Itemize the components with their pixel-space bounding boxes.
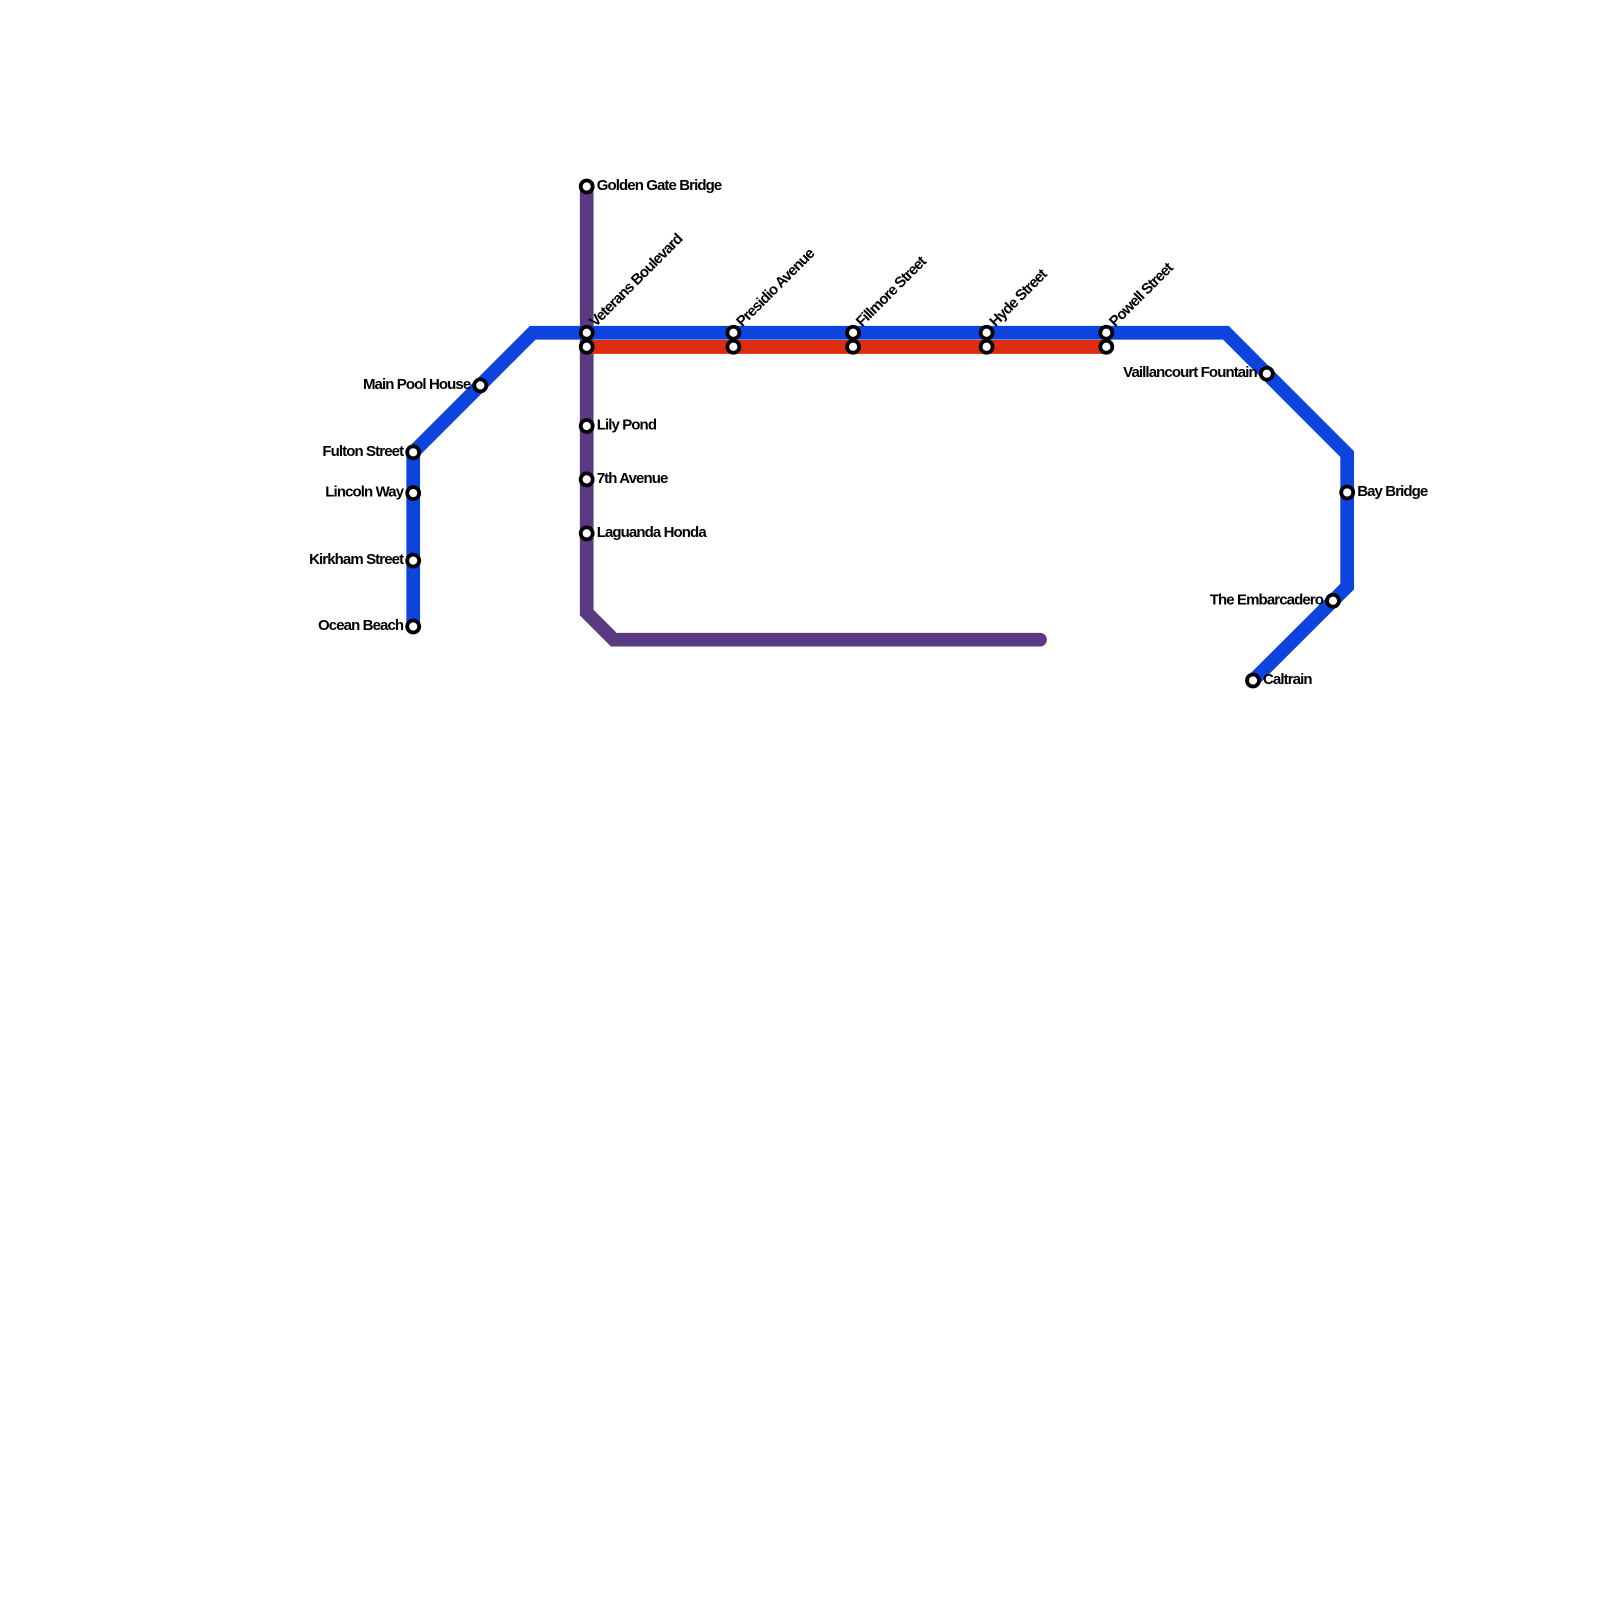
svg-text:Caltrain: Caltrain — [1263, 671, 1312, 688]
svg-text:Vaillancourt Fountain: Vaillancourt Fountain — [1123, 364, 1257, 381]
svg-text:Fulton Street: Fulton Street — [322, 443, 404, 460]
station Kirkham Street — [407, 555, 419, 567]
svg-text:Kirkham Street: Kirkham Street — [309, 551, 404, 568]
station Laguanda Honda — [581, 527, 593, 539]
svg-text:Golden Gate Bridge: Golden Gate Bridge — [597, 177, 722, 194]
station Main Pool House — [474, 379, 486, 391]
blue line (Ocean Beach to Caltrain) — [413, 333, 1347, 681]
station Presidio Avenue blue — [727, 327, 739, 339]
svg-text:Bay Bridge: Bay Bridge — [1357, 483, 1428, 500]
station Powell Street blue — [1100, 327, 1112, 339]
station The Embarcadero — [1327, 595, 1339, 607]
station Hyde Street red — [981, 341, 993, 353]
station Golden Gate Bridge — [581, 181, 593, 193]
svg-text:Laguanda Honda: Laguanda Honda — [597, 524, 708, 541]
station Caltrain — [1247, 675, 1259, 687]
svg-text:Main Pool House: Main Pool House — [363, 376, 471, 393]
station Fulton Street — [407, 446, 419, 458]
station Presidio Avenue red — [727, 341, 739, 353]
purple line (Golden Gate Bridge to depot) — [587, 187, 1040, 640]
svg-text:Lincoln Way: Lincoln Way — [325, 484, 404, 501]
station Ocean Beach — [407, 621, 419, 633]
svg-text:Ocean Beach: Ocean Beach — [318, 617, 404, 634]
station Powell Street red — [1100, 341, 1112, 353]
station Lincoln Way — [407, 487, 419, 499]
station Veterans Boulevard red — [581, 341, 593, 353]
station Bay Bridge — [1341, 487, 1353, 499]
station Veterans Boulevard blue — [581, 327, 593, 339]
station Lily Pond — [581, 420, 593, 432]
station Fillmore Street red — [847, 341, 859, 353]
station Hyde Street blue — [981, 327, 993, 339]
station Fillmore Street blue — [847, 327, 859, 339]
red line (Veterans Boulevard to Powell Street) — [587, 340, 1107, 354]
svg-text:Lily Pond: Lily Pond — [597, 417, 657, 434]
station 7th Avenue — [581, 473, 593, 485]
station Vaillancourt Fountain — [1261, 368, 1273, 380]
svg-text:The Embarcadero: The Embarcadero — [1210, 591, 1324, 608]
svg-text:7th Avenue: 7th Avenue — [597, 470, 668, 487]
